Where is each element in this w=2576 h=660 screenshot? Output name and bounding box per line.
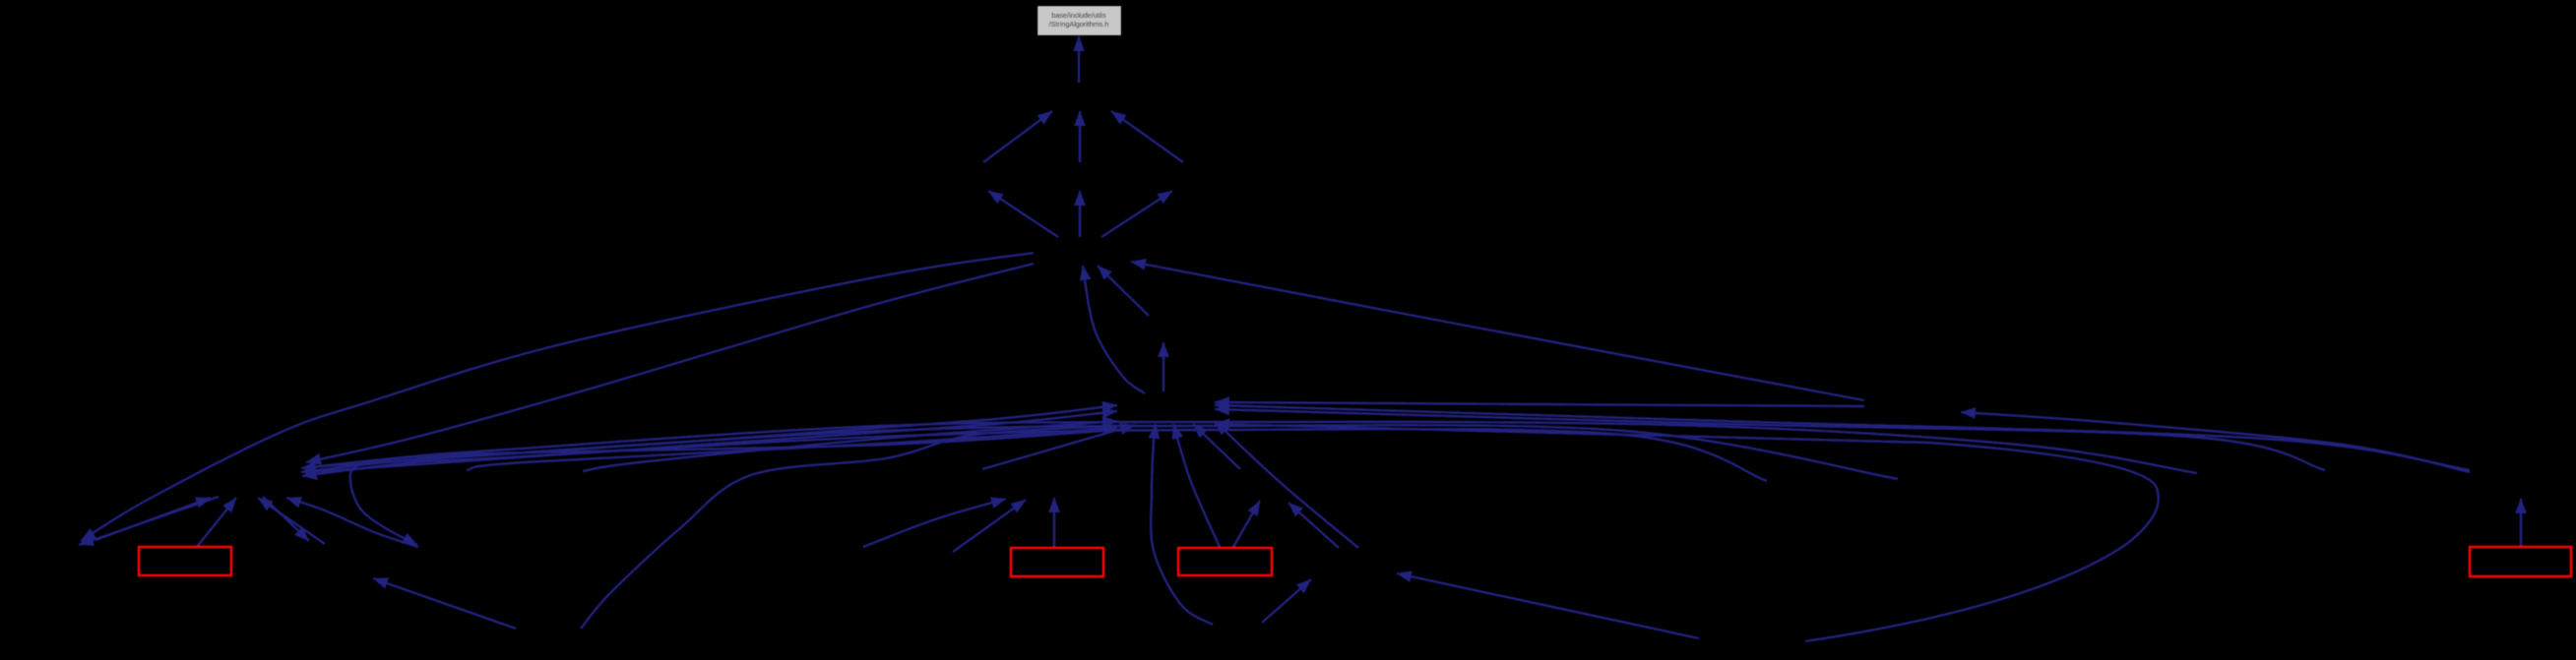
edge S->U xyxy=(1961,412,2470,472)
edge BE->R xyxy=(1397,573,1699,638)
edge BG->P xyxy=(863,499,1006,547)
node RB2 red box xyxy=(1011,548,1103,576)
node RB1 red box xyxy=(139,547,231,575)
edge E->F long curve xyxy=(81,253,1034,541)
edge R->Q xyxy=(1288,503,1339,548)
edge W2->L highway xyxy=(302,429,1767,481)
edge N->E xyxy=(1098,266,1149,316)
edge BC->H xyxy=(581,426,1117,629)
edge BH->P xyxy=(953,500,1026,552)
edge L->M2 xyxy=(263,497,309,541)
edge F->L xyxy=(95,498,211,540)
edge E->M xyxy=(1079,191,1081,237)
edge H->E curved xyxy=(1083,266,1145,393)
edge RB4->S xyxy=(2520,499,2522,547)
edge C->A xyxy=(1111,111,1183,162)
node RB3 red box xyxy=(1178,548,1272,575)
edge E->L xyxy=(306,264,1034,462)
svg-text:/StringAlgorithms.h: /StringAlgorithms.h xyxy=(1049,20,1109,29)
node RB4 red box xyxy=(2470,547,2571,576)
edge U->H xyxy=(1215,402,1864,406)
edge BD->R xyxy=(1262,579,1311,623)
edge LC->H xyxy=(583,421,1117,471)
edge RB2->P xyxy=(1053,498,1055,548)
edge RB3->Q xyxy=(1233,501,1260,547)
edge T->H xyxy=(1215,409,2325,470)
edge E->C xyxy=(1101,191,1172,237)
edge A->ROOT xyxy=(1078,36,1080,83)
edge S->H xyxy=(1215,405,2470,470)
edge L->F xyxy=(79,497,219,545)
edge B->A xyxy=(983,111,1052,162)
edge M2->L xyxy=(258,498,325,544)
edge BE->H big arc xyxy=(1215,424,2159,641)
edge H->N xyxy=(1162,342,1164,391)
edge M->A xyxy=(1079,111,1081,162)
edge BC->M2 xyxy=(373,578,516,629)
edge U->E long xyxy=(1131,262,1864,400)
edge R->H xyxy=(1215,421,1358,548)
edge P->H xyxy=(982,425,1135,469)
edge H->M2 hook xyxy=(350,430,1115,545)
edge LB->H xyxy=(467,428,1117,470)
svg-text:base/include/utils: base/include/utils xyxy=(1051,11,1106,20)
edge BD->H C-curve xyxy=(1151,424,1213,625)
edge Q->H xyxy=(1193,424,1240,469)
node ROOT base/include/utils/StringAlgorithms.h xyxy=(1037,6,1121,35)
edge V->L highway xyxy=(301,425,1898,479)
edge RB3->H xyxy=(1173,424,1220,547)
edge Y->L highway xyxy=(301,422,2197,473)
edge L->H b xyxy=(307,411,1117,472)
edge M2->L second xyxy=(286,498,418,547)
edge L->H a xyxy=(307,405,1117,467)
edge E->B xyxy=(988,191,1058,237)
edge RB1->L xyxy=(197,498,236,547)
